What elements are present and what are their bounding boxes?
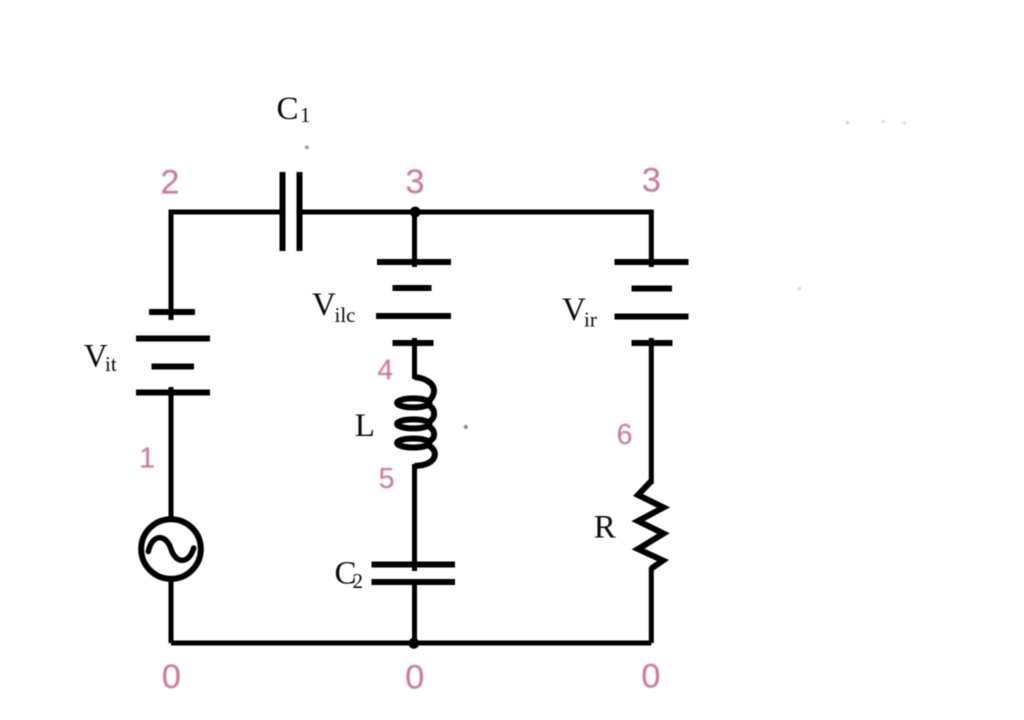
artifact speck near L: [464, 425, 468, 429]
capacitor C1: [283, 172, 300, 251]
battery Vit: [136, 312, 210, 393]
wire: inductor to C2: [412, 464, 417, 571]
battery Vir: [615, 262, 689, 343]
node 0 junction dot: [408, 638, 419, 649]
wire: Vit to AC source: [169, 387, 174, 517]
svg-text:2: 2: [353, 569, 364, 593]
svg-text:0: 0: [405, 659, 424, 697]
svg-text:0: 0: [641, 658, 660, 696]
svg-text:6: 6: [617, 419, 633, 451]
faint artifact specks top right: [846, 121, 850, 125]
faint artifact speck right of Vir: [798, 287, 802, 291]
artifact speck near C1: [305, 145, 309, 149]
svg-text:ir: ir: [584, 308, 597, 332]
wire: C1 to node 3 to right corner: [299, 212, 651, 267]
svg-text:R: R: [594, 510, 616, 546]
wire: node 3 down to Vilc: [412, 212, 417, 267]
svg-text:5: 5: [379, 463, 395, 495]
wire: AC source to bottom rail: [169, 580, 174, 643]
battery Vilc: [376, 262, 451, 343]
svg-text:ilc: ilc: [335, 303, 356, 327]
wire: Vir to resistor: [649, 338, 654, 484]
AC source sine wave: [148, 538, 193, 561]
svg-text:it: it: [105, 352, 117, 376]
AC source V1 circle: [141, 519, 201, 579]
svg-text:2: 2: [160, 164, 179, 202]
wire top-left: node 2 corner to C1: [171, 212, 282, 320]
svg-text:L: L: [355, 408, 375, 444]
svg-text:3: 3: [405, 163, 424, 201]
capacitor C2: [372, 565, 456, 583]
wire bottom rail node 0: [171, 641, 651, 646]
wire: Vilc to inductor: [412, 338, 417, 379]
wire: C2 to bottom rail: [412, 582, 417, 643]
wire: resistor to bottom rail: [649, 567, 654, 643]
svg-text:V: V: [312, 287, 336, 323]
inductor L coil: [397, 377, 435, 466]
svg-text:0: 0: [162, 658, 181, 696]
svg-text:3: 3: [642, 162, 661, 200]
resistor R zigzag: [638, 481, 664, 569]
svg-text:4: 4: [377, 355, 393, 387]
svg-text:V: V: [562, 292, 586, 328]
svg-text:C: C: [277, 91, 299, 127]
svg-text:1: 1: [300, 103, 311, 127]
node 3 junction dot: [410, 207, 421, 218]
svg-text:1: 1: [139, 443, 155, 475]
